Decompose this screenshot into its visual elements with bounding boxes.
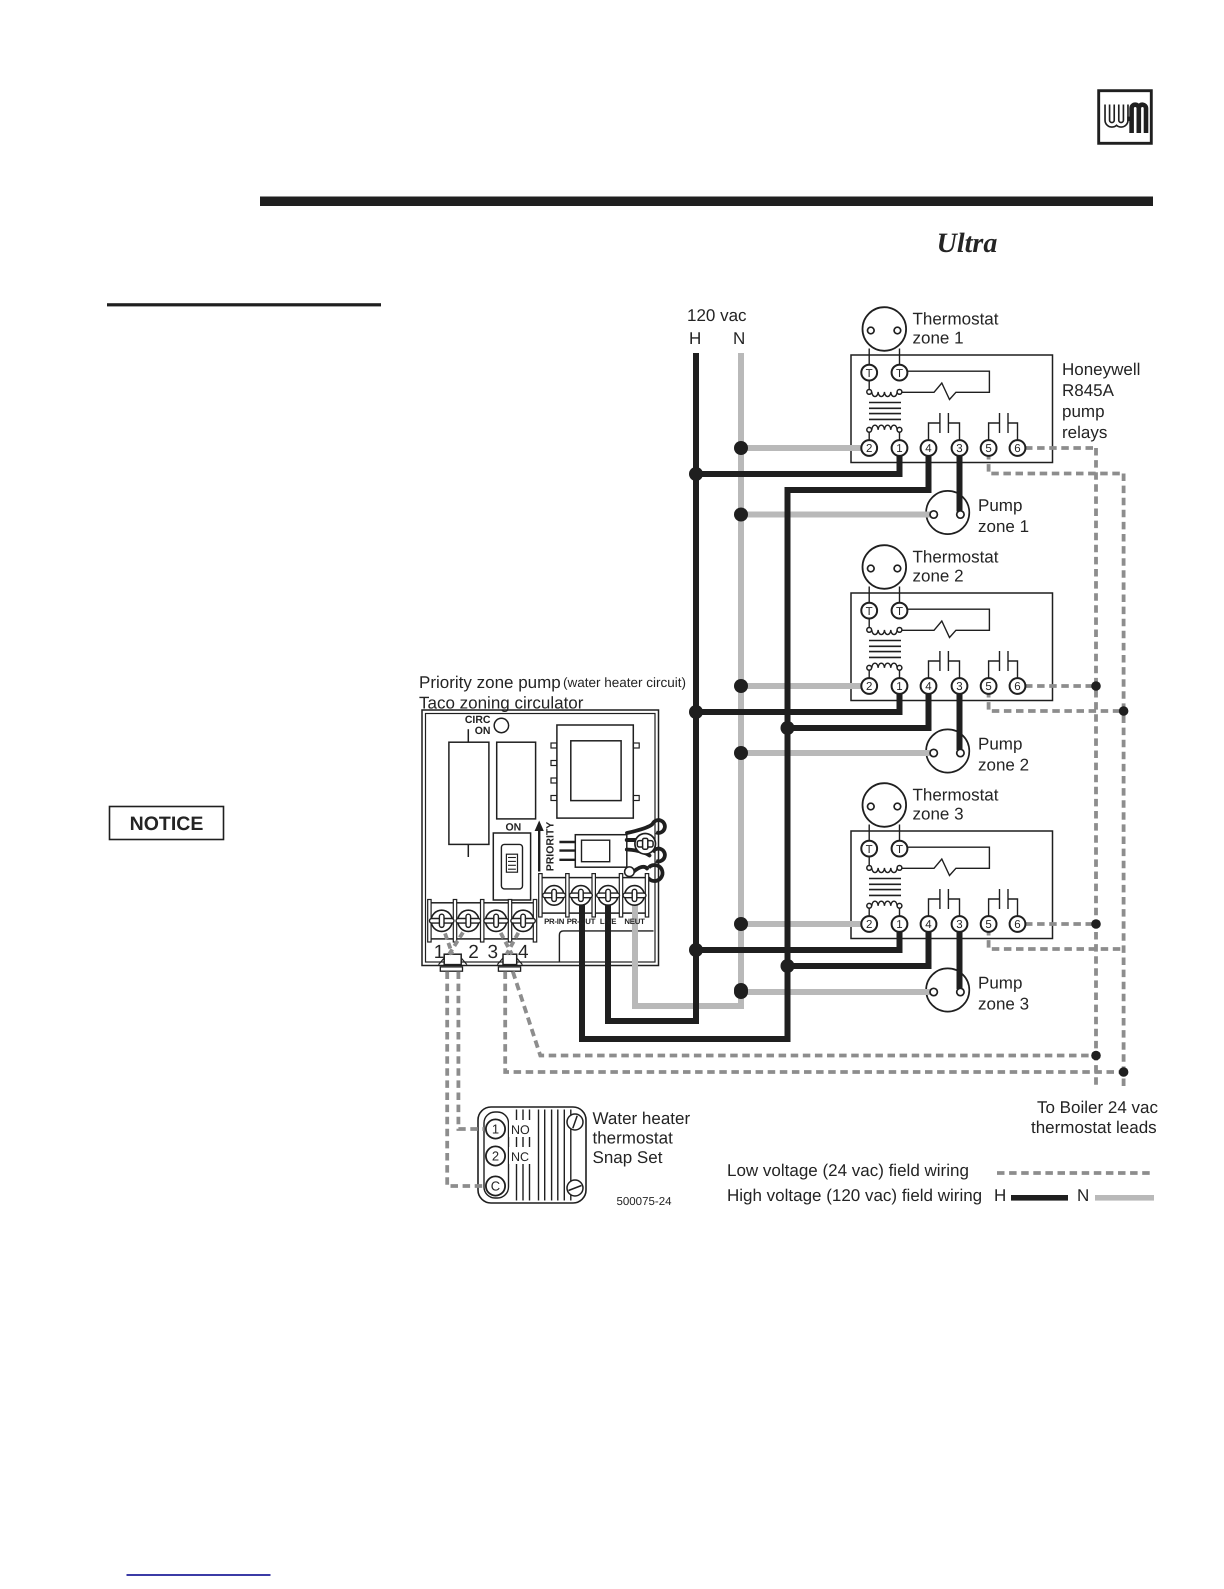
pump terminal left zone 3 xyxy=(930,988,937,995)
relay contact 5-6 zone 2 xyxy=(989,651,1018,678)
snap set screw bottom xyxy=(567,1180,583,1196)
relay terminal 1 zone 3 xyxy=(892,916,908,932)
svg-text:R845A: R845A xyxy=(1062,381,1115,400)
svg-text:6: 6 xyxy=(1014,443,1020,455)
junction dashed bus right zone 2 xyxy=(1119,706,1129,716)
svg-text:2: 2 xyxy=(866,681,872,693)
connector tab B xyxy=(497,954,522,971)
svg-text:4: 4 xyxy=(518,942,529,963)
svg-text:T: T xyxy=(866,606,873,618)
thermostat zone 3 xyxy=(863,783,907,841)
pump terminal right zone 2 xyxy=(957,749,964,756)
relay terminal 6 zone 1 xyxy=(1010,440,1026,456)
svg-text:N: N xyxy=(733,329,745,348)
relay terminal 4 zone 2 xyxy=(921,678,937,694)
terminal T left zone 1 xyxy=(861,365,877,381)
pump terminal left zone 1 xyxy=(930,511,937,518)
svg-text:pump: pump xyxy=(1062,402,1105,421)
wire N main (gray) xyxy=(635,353,741,1006)
plug hold-down screw xyxy=(635,834,656,855)
svg-text:NO: NO xyxy=(511,1123,530,1137)
panel notch xyxy=(559,931,653,963)
svg-text:zone 1: zone 1 xyxy=(978,517,1029,536)
dashed screw 2 to tab A xyxy=(449,924,468,955)
transformer secondary coil zone 3 xyxy=(867,901,902,916)
junction dashed bus left zone 3 xyxy=(1091,919,1101,929)
svg-text:2: 2 xyxy=(866,443,872,455)
dashed wire taco-3/4 to bus (upper) xyxy=(513,972,1096,1056)
junction N / pump feed zone 2 xyxy=(734,746,748,760)
svg-text:3: 3 xyxy=(956,443,962,455)
label To Boiler 24 vac thermostat leads xyxy=(1031,1098,1158,1137)
svg-text:3: 3 xyxy=(956,681,962,693)
connector tab A xyxy=(439,954,467,971)
water heater thermostat (Snap Set) xyxy=(478,1107,586,1203)
label Pump zone 1 xyxy=(978,496,1029,536)
relay terminal 3 zone 1 xyxy=(952,440,968,456)
svg-text:NOTICE: NOTICE xyxy=(130,813,204,835)
transformer primary coil zone 2 xyxy=(867,619,902,635)
svg-text:thermostat leads: thermostat leads xyxy=(1031,1118,1157,1137)
junction dashed bus left zone 2 xyxy=(1091,681,1101,691)
junction N / pump feed zone 1 xyxy=(734,508,748,522)
svg-text:500075-24: 500075-24 xyxy=(617,1196,673,1208)
taco screw PR-IN xyxy=(543,886,566,906)
transformer core zone 2 xyxy=(869,641,901,658)
relay terminal 5 zone 3 xyxy=(981,916,997,932)
wire terminal 6 to bus zone 1 (dashed) xyxy=(1025,446,1096,450)
relay heater/anticipator zigzag zone 3 xyxy=(902,847,990,875)
transformer primary coil zone 1 xyxy=(867,381,902,397)
svg-text:5: 5 xyxy=(985,919,991,931)
junction N / terminal-2 feed zone 2 xyxy=(734,679,748,693)
relay terminal 1 zone 2 xyxy=(892,678,908,694)
svg-text:T: T xyxy=(896,606,903,618)
taco low-voltage screw 3 xyxy=(484,910,508,931)
label Pump zone 3 xyxy=(978,974,1029,1014)
wire terminal 6 to bus zone 3 (dashed) xyxy=(1025,922,1096,926)
svg-text:H: H xyxy=(689,329,701,348)
dashed vertical boiler-thermostat bus left xyxy=(1094,448,1098,1089)
transformer secondary coil zone 1 xyxy=(867,425,902,440)
svg-text:1: 1 xyxy=(434,942,445,963)
relay terminal 4 zone 1 xyxy=(921,440,937,456)
svg-text:Pump: Pump xyxy=(978,496,1022,515)
terminal T right zone 1 xyxy=(892,365,908,381)
label Thermostat zone 1 xyxy=(913,310,999,348)
pump terminal left zone 2 xyxy=(930,749,937,756)
svg-text:4: 4 xyxy=(925,681,932,693)
wire N to relay terminal 2 zone 3 (gray) xyxy=(741,921,862,927)
label CIRC ON xyxy=(465,714,491,737)
svg-text:Water heater: Water heater xyxy=(593,1109,691,1128)
taco screw PR-OUT xyxy=(570,886,593,906)
snap set terminal C xyxy=(486,1176,505,1195)
svg-text:Low voltage (24 vac) field wi: Low voltage (24 vac) field wiring xyxy=(727,1161,969,1180)
junction N / terminal-2 feed zone 1 xyxy=(734,441,748,455)
label Thermostat zone 2 xyxy=(913,548,999,586)
dashed screw 4 to tab B xyxy=(507,924,524,955)
svg-text:1: 1 xyxy=(896,681,902,693)
label Priority zone pump (water heater circuit) xyxy=(419,673,686,692)
NOTICE box xyxy=(110,807,224,840)
svg-text:1: 1 xyxy=(896,919,902,931)
wire terminal 5 to bus zone 2 (dashed) xyxy=(989,690,1124,711)
terminal T right zone 3 xyxy=(892,841,908,857)
svg-text:Thermostat: Thermostat xyxy=(913,786,999,805)
dashed wire taco-2 to snap set terminal C xyxy=(447,972,484,1187)
wire H main (black) xyxy=(608,353,696,1021)
relay heater/anticipator zigzag zone 1 xyxy=(902,371,990,399)
wire N to relay terminal 2 zone 1 (gray) xyxy=(741,445,862,451)
svg-text:T: T xyxy=(896,844,903,856)
svg-text:ON: ON xyxy=(475,725,491,737)
relay box zone 2 (Honeywell R845A) xyxy=(851,593,1053,701)
wire terminal 6 to bus zone 2 (dashed) xyxy=(1025,684,1096,688)
taco screw NEUT xyxy=(623,886,646,906)
svg-text:Pump: Pump xyxy=(978,735,1022,754)
wire terminal 4 zone 3 branch (black) xyxy=(788,928,929,966)
labels 1 2 3 4 xyxy=(434,942,529,963)
section rule xyxy=(107,303,381,306)
label Water heater thermostat Snap Set xyxy=(593,1109,691,1167)
header bar xyxy=(260,197,1153,207)
svg-text:3: 3 xyxy=(488,942,499,963)
relay contact 5-6 zone 3 xyxy=(989,889,1018,916)
terminal T right zone 2 xyxy=(892,603,908,619)
wire N to relay terminal 2 zone 2 (gray) xyxy=(741,683,862,689)
junction N / pump feed zone 3 xyxy=(734,985,748,999)
snap set terminal 2 xyxy=(486,1146,505,1165)
legend low voltage xyxy=(727,1161,1152,1180)
svg-text:1: 1 xyxy=(492,1122,499,1137)
relay contact 4-3 zone 2 xyxy=(929,651,960,678)
relay contact 4-3 zone 3 xyxy=(929,889,960,916)
relay contact 5-6 zone 1 xyxy=(989,413,1018,440)
wire H to relay terminal 1 zone 1 (black) xyxy=(696,452,900,474)
dashed screw 3 to tab B xyxy=(496,924,512,955)
svg-text:120 vac: 120 vac xyxy=(687,306,747,325)
relay terminal 4 zone 3 xyxy=(921,916,937,932)
svg-text:2: 2 xyxy=(468,942,479,963)
svg-text:PRIORITY: PRIORITY xyxy=(545,822,557,872)
labels PR-IN PR-OUT LIVE NEUT xyxy=(544,917,645,926)
relay terminal 3 zone 3 xyxy=(952,916,968,932)
relay box zone 3 (Honeywell R845A) xyxy=(851,831,1053,939)
label Honeywell R845A pump relays xyxy=(1062,360,1140,442)
svg-text:Honeywell: Honeywell xyxy=(1062,360,1140,379)
svg-text:zone 2: zone 2 xyxy=(978,756,1029,775)
relay terminal 2 zone 1 xyxy=(861,440,877,456)
svg-text:4: 4 xyxy=(925,919,932,931)
pump zone 2 xyxy=(926,729,969,772)
relay heater/anticipator zigzag zone 2 xyxy=(902,609,990,637)
plug pilot light xyxy=(625,867,635,877)
wire terminal 4 zone 2 branch (black) xyxy=(788,690,929,728)
wire terminal 5 to bus zone 3 (dashed) xyxy=(989,928,1124,949)
svg-text:zone 3: zone 3 xyxy=(913,805,964,824)
thermostat zone 1 xyxy=(863,307,907,365)
svg-text:2: 2 xyxy=(492,1149,499,1164)
capacitor component xyxy=(449,729,489,857)
transformer secondary coil zone 2 xyxy=(867,663,902,678)
label Pump zone 2 xyxy=(978,735,1029,775)
svg-text:Snap Set: Snap Set xyxy=(593,1148,663,1167)
junction dashed bus left bottom xyxy=(1091,1051,1101,1061)
relay terminal 2 zone 3 xyxy=(861,916,877,932)
relay terminal 6 zone 2 xyxy=(1010,678,1026,694)
priority switch xyxy=(493,833,530,900)
Weil-McLain logo xyxy=(1099,91,1152,144)
plug wiring curls xyxy=(627,818,667,883)
terminal T left zone 2 xyxy=(861,603,877,619)
junction N / terminal-2 feed zone 3 xyxy=(734,917,748,931)
transformer component xyxy=(551,725,639,818)
pump terminal right zone 1 xyxy=(957,511,964,518)
svg-text:thermostat: thermostat xyxy=(593,1129,674,1148)
taco low-voltage screw 4 xyxy=(511,910,535,931)
priority plug xyxy=(559,835,626,868)
svg-text:3: 3 xyxy=(956,919,962,931)
relay contact 4-3 zone 1 xyxy=(929,413,960,440)
svg-text:Pump: Pump xyxy=(978,974,1022,993)
transformer primary coil zone 3 xyxy=(867,857,902,873)
svg-text:N: N xyxy=(1077,1186,1089,1205)
svg-text:5: 5 xyxy=(985,443,991,455)
svg-text:T: T xyxy=(866,844,873,856)
svg-text:LIVE: LIVE xyxy=(600,917,616,926)
wire terminal 3 to pump zone 1 (black) xyxy=(957,452,963,512)
relay terminal 6 zone 3 xyxy=(1010,916,1026,932)
svg-text:PR-IN: PR-IN xyxy=(544,917,565,926)
relay terminal 5 zone 1 xyxy=(981,440,997,456)
svg-text:Priority zone pump: Priority zone pump xyxy=(419,673,561,692)
junction N / NEUT leg xyxy=(734,983,748,997)
snap set screw top xyxy=(567,1114,583,1130)
svg-text:T: T xyxy=(896,368,903,380)
svg-text:H: H xyxy=(994,1186,1006,1205)
svg-text:6: 6 xyxy=(1014,919,1020,931)
wire terminal 5 to bus zone 1 (dashed) xyxy=(989,452,1124,474)
wire N to pump zone 1 (gray) xyxy=(741,512,931,518)
terminal T left zone 3 xyxy=(861,841,877,857)
legend high voltage xyxy=(727,1186,1154,1205)
svg-text:relays: relays xyxy=(1062,423,1107,442)
svg-text:To Boiler 24 vac: To Boiler 24 vac xyxy=(1037,1098,1158,1117)
svg-text:Thermostat: Thermostat xyxy=(913,310,999,329)
snap set terminal 1 xyxy=(486,1119,505,1138)
Taco circulator box xyxy=(422,710,659,966)
svg-text:(water heater circuit): (water heater circuit) xyxy=(563,675,686,690)
junction PR-OUT riser zone 3 xyxy=(781,959,795,973)
svg-text:NEUT: NEUT xyxy=(624,917,645,926)
svg-text:T: T xyxy=(866,368,873,380)
taco screw LIVE xyxy=(597,886,620,906)
transformer core zone 1 xyxy=(869,403,901,420)
relay box zone 1 (Honeywell R845A) xyxy=(851,355,1053,463)
transformer core zone 3 xyxy=(869,879,901,896)
relay terminal 3 zone 2 xyxy=(952,678,968,694)
footer rule (blue) xyxy=(127,1574,271,1576)
relay component xyxy=(497,742,536,819)
svg-text:zone 3: zone 3 xyxy=(978,995,1029,1014)
svg-text:zone 1: zone 1 xyxy=(913,329,964,348)
svg-text:2: 2 xyxy=(866,919,872,931)
svg-text:PR-OUT: PR-OUT xyxy=(567,917,596,926)
wire N to pump zone 3 (gray) xyxy=(741,989,931,995)
taco low-voltage screw 2 xyxy=(456,910,480,931)
dashed wire taco-3/4 to bus (lower) xyxy=(505,972,1123,1073)
junction H / terminal-1 feed zone 3 xyxy=(689,943,703,957)
wire N to pump zone 2 (gray) xyxy=(741,750,931,756)
pump terminal right zone 3 xyxy=(957,988,964,995)
label PRIORITY xyxy=(545,822,557,872)
svg-text:High voltage (120 vac) field w: High voltage (120 vac) field wiring xyxy=(727,1186,982,1205)
relay terminal 2 zone 2 xyxy=(861,678,877,694)
svg-text:6: 6 xyxy=(1014,681,1020,693)
wire terminal 3 to pump zone 2 (black) xyxy=(957,690,963,750)
svg-text:NC: NC xyxy=(511,1150,529,1164)
taco low-voltage screw 1 xyxy=(430,910,454,931)
dashed screw 1 to tab A xyxy=(442,924,453,955)
svg-text:Thermostat: Thermostat xyxy=(913,548,999,567)
pump zone 1 xyxy=(926,491,969,534)
low voltage terminal strip xyxy=(428,900,537,943)
svg-text:zone 2: zone 2 xyxy=(913,567,964,586)
svg-text:4: 4 xyxy=(925,443,932,455)
PRIORITY arrow xyxy=(535,821,544,872)
line voltage terminal strip xyxy=(539,874,649,917)
CIRC ON indicator xyxy=(494,718,508,732)
junction H / terminal-1 feed zone 2 xyxy=(689,705,703,719)
junction dashed bus right bottom xyxy=(1119,1067,1129,1077)
svg-text:5: 5 xyxy=(985,681,991,693)
svg-text:Ultra: Ultra xyxy=(937,228,998,259)
thermostat zone 2 xyxy=(863,545,907,603)
wire H to relay terminal 1 zone 3 (black) xyxy=(696,928,900,950)
wire terminal 3 to pump zone 3 (black) xyxy=(957,928,963,989)
dashed vertical boiler-thermostat bus right xyxy=(1122,474,1126,1090)
svg-text:C: C xyxy=(491,1179,500,1194)
relay terminal 5 zone 2 xyxy=(981,678,997,694)
wire H to relay terminal 1 zone 2 (black) xyxy=(696,690,900,712)
wire PR-OUT riser (black) xyxy=(582,452,929,1039)
junction H / terminal-1 feed zone 1 xyxy=(689,467,703,481)
junction PR-OUT riser zone 2 xyxy=(781,721,795,735)
label Thermostat zone 3 xyxy=(913,786,999,824)
pump zone 3 xyxy=(926,968,969,1011)
svg-text:ON: ON xyxy=(506,822,522,834)
dashed wire taco-1 to snap set terminal 1 xyxy=(458,972,484,1130)
relay terminal 1 zone 1 xyxy=(892,440,908,456)
svg-text:1: 1 xyxy=(896,443,902,455)
